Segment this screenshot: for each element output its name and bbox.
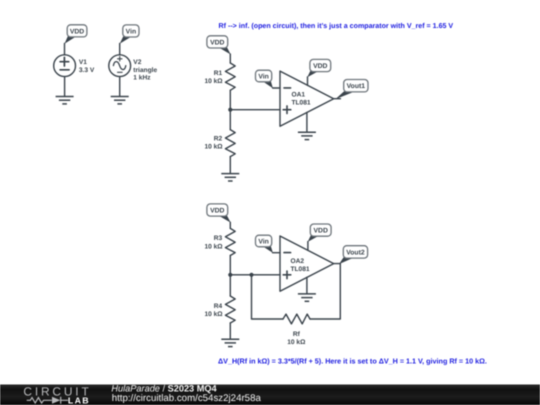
svg-text:10 kΩ: 10 kΩ [204, 244, 223, 251]
svg-text:1 kHz: 1 kHz [133, 75, 151, 82]
svg-text:OA1: OA1 [292, 91, 306, 98]
svg-text:VDD: VDD [210, 208, 224, 215]
svg-text:V2: V2 [133, 59, 141, 66]
svg-text:VDD: VDD [210, 39, 224, 46]
svg-text:triangle: triangle [133, 67, 157, 74]
svg-text:Vout1: Vout1 [347, 83, 366, 90]
svg-text:VDD: VDD [313, 63, 327, 70]
svg-text:OA2: OA2 [291, 258, 305, 265]
svg-text:Rf: Rf [293, 331, 301, 338]
svg-text:Vin: Vin [126, 29, 136, 36]
svg-text:Vout2: Vout2 [346, 249, 365, 256]
svg-text:Rf --> inf. (open circuit), th: Rf --> inf. (open circuit), then it’s ju… [219, 22, 454, 30]
svg-text:R4: R4 [214, 303, 223, 310]
svg-text:R1: R1 [214, 70, 223, 77]
svg-text:R3: R3 [214, 235, 223, 242]
svg-text:VDD: VDD [70, 28, 84, 35]
svg-text:10 kΩ: 10 kΩ [287, 339, 306, 346]
svg-text:VDD: VDD [314, 228, 328, 235]
svg-text:TL081: TL081 [291, 266, 310, 273]
svg-text:LAB: LAB [68, 396, 90, 405]
svg-text:Vin: Vin [258, 73, 268, 80]
svg-text:http://circuitlab.com/c54sz2j2: http://circuitlab.com/c54sz2j24r58a [112, 393, 262, 404]
svg-text:ΔV_H(Rf in kΩ) = 3.3*5/(Rf + 5: ΔV_H(Rf in kΩ) = 3.3*5/(Rf + 5). Here it… [218, 357, 487, 366]
svg-text:R2: R2 [214, 135, 223, 142]
svg-text:10 kΩ: 10 kΩ [204, 144, 223, 151]
svg-text:Vin: Vin [258, 238, 268, 245]
svg-text:10 kΩ: 10 kΩ [204, 311, 223, 318]
svg-text:V1: V1 [79, 59, 87, 66]
svg-text:3.3 V: 3.3 V [79, 67, 95, 74]
svg-text:10 kΩ: 10 kΩ [204, 78, 223, 85]
svg-text:TL081: TL081 [292, 100, 311, 107]
